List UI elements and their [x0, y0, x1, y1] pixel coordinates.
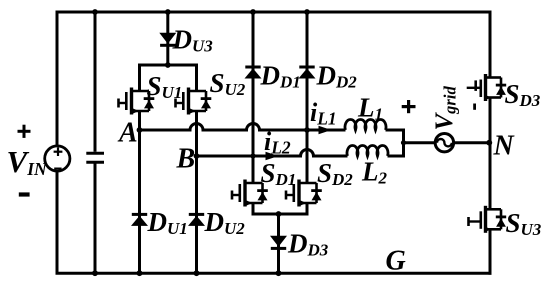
wire DD2 / SD2 drain column	[306, 12, 309, 183]
wire to Vgrid	[404, 141, 436, 144]
wire capacitor branch upper	[94, 12, 97, 152]
node dot DD1 top	[250, 9, 256, 15]
transistor SU3	[481, 206, 506, 233]
transistor SD2	[286, 180, 322, 207]
wire bottom rail G	[56, 272, 492, 275]
transistor SD3 gate lead	[467, 87, 481, 89]
node dot cap top	[92, 9, 98, 15]
source Vgrid AC circle	[435, 134, 453, 152]
wire SU2 source / DU2 column	[195, 111, 198, 273]
diode DU2	[188, 214, 205, 226]
wire DD1 / SD1 drain column	[252, 12, 255, 183]
arrow iL2	[266, 152, 279, 160]
node dot N	[486, 140, 492, 146]
wire right rail lower	[489, 229, 492, 274]
svg-text:N: N	[493, 131, 516, 162]
node dot A	[137, 127, 143, 133]
source VIN internal minus	[54, 168, 61, 170]
transistor SU3 gate lead	[469, 220, 481, 222]
wire right rail upper	[489, 11, 492, 78]
wire SU1 source / DU1 column	[138, 111, 141, 273]
wire bridge top SU1-SU2	[140, 65, 197, 91]
wire node B with hop over DD2 column	[197, 150, 348, 157]
wire DD3 column	[277, 214, 280, 273]
node dot DD2 top	[304, 9, 310, 15]
wire SD1 source pin	[252, 203, 255, 216]
diode DU3	[159, 33, 176, 46]
transistor SD3	[481, 74, 506, 101]
diode DU1	[131, 214, 148, 226]
node dot bottom DD3	[276, 270, 282, 276]
transistor SD3 gate plus bar	[474, 80, 477, 91]
node dot DU3 top	[165, 9, 171, 15]
capacitor Cin plates	[86, 153, 104, 162]
transistor SD1	[232, 180, 268, 207]
arrow iL1	[319, 126, 332, 134]
node dot A x DD2	[304, 127, 310, 133]
svg-text:A: A	[117, 118, 138, 149]
node dot bottom DU2	[194, 270, 200, 276]
transistor SU2	[176, 88, 212, 115]
wire node A with hops over SU2 and DD1 columns	[140, 124, 346, 131]
label VIN external plus	[18, 125, 31, 195]
label VIN external minus	[19, 192, 30, 196]
wire left rail lower	[56, 172, 59, 274]
wire DU3 branch	[166, 12, 169, 65]
wire capacitor branch lower	[94, 164, 97, 274]
svg-text:G: G	[386, 246, 406, 277]
inductor L2	[347, 146, 388, 156]
wire top rail	[56, 11, 491, 14]
source Vgrid sine	[437, 139, 452, 146]
wire Vgrid to node N	[453, 141, 490, 144]
node dot B x DD1	[250, 153, 255, 158]
wire SD2 source pin	[306, 203, 309, 216]
diode DD3	[270, 236, 287, 249]
wire L1 output	[386, 130, 404, 143]
transistor SU3 gate cap	[467, 217, 470, 226]
diode DD2	[299, 67, 316, 79]
node dot bottom cap	[92, 270, 98, 276]
node dot B	[194, 153, 200, 159]
node dot SD sources	[276, 211, 282, 217]
transistor SD3 gate minus mark	[473, 104, 476, 110]
inductor L1	[345, 120, 386, 130]
wire L2 output	[388, 143, 404, 156]
source VIN internal plus	[54, 147, 63, 168]
diode DD1	[245, 67, 262, 79]
wire left rail upper	[56, 11, 59, 147]
node dot bridge top	[165, 62, 171, 68]
label Vgrid plus	[402, 100, 416, 113]
node dot bottom DU1	[137, 270, 143, 276]
node dot L join	[401, 140, 406, 145]
source VIN circle	[45, 146, 70, 171]
transistor SU1	[119, 88, 155, 115]
svg-text:B: B	[176, 144, 196, 175]
wire right rail mid	[489, 98, 492, 210]
wire SD1-SD2 source bus	[252, 213, 309, 216]
